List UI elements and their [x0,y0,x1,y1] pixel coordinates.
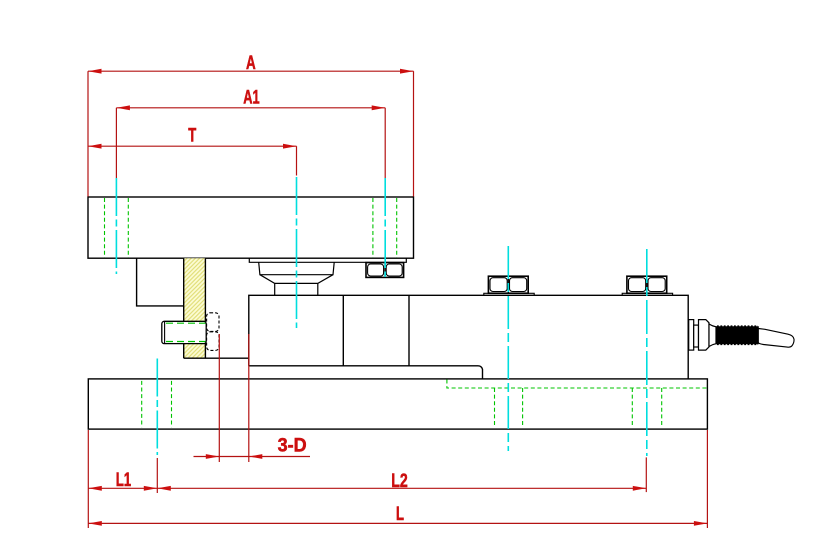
load button cone [260,275,333,296]
svg-text:L: L [396,503,404,525]
connector collar [694,325,699,347]
connector neck [709,324,716,347]
dimension L1 [88,430,157,528]
body bolt 1 [484,276,534,295]
dimension L [88,430,707,528]
hidden recess line (green) [447,380,707,389]
svg-text:3-D: 3-D [278,435,307,457]
body internal line 2 [408,295,410,366]
hidden nut (dashed) [207,313,219,351]
step block left [137,258,184,306]
plate bolt head (under plate right) [366,263,404,278]
horizontal bolt [162,321,206,343]
cable connector flange [689,320,694,351]
dimension 3-D [194,334,311,462]
cable [758,329,794,348]
gland thread teeth [717,326,758,344]
body bolt 2 [622,276,672,295]
dimension T [88,146,297,175]
hole hidden lines left (top plate) [105,198,129,258]
dimension L2 [157,457,646,492]
load button cap strip [249,258,406,262]
dimension A [88,71,414,196]
body internal line 1 [342,295,344,366]
threaded cable gland (black) [716,327,758,344]
top plate [88,197,414,258]
svg-text:A1: A1 [243,87,259,109]
load button cup [259,262,335,274]
dimension A1 [116,108,385,178]
centerline left hole top plate (cyan) [116,177,646,456]
hidden hole base left (green) [142,381,172,427]
bolt thread hidden lines [166,323,206,341]
hidden holes base right (green) [495,388,662,427]
svg-text:A: A [246,52,256,74]
svg-text:L1: L1 [116,469,132,491]
svg-text:T: T [188,125,196,147]
foot bottom line [184,357,249,359]
svg-text:L2: L2 [391,470,408,492]
base plate [88,379,707,429]
load cell body outline [249,295,688,379]
hatched spacer column [184,258,206,358]
connector hex nut [699,320,710,351]
hole hidden lines right (top plate) [373,198,397,258]
